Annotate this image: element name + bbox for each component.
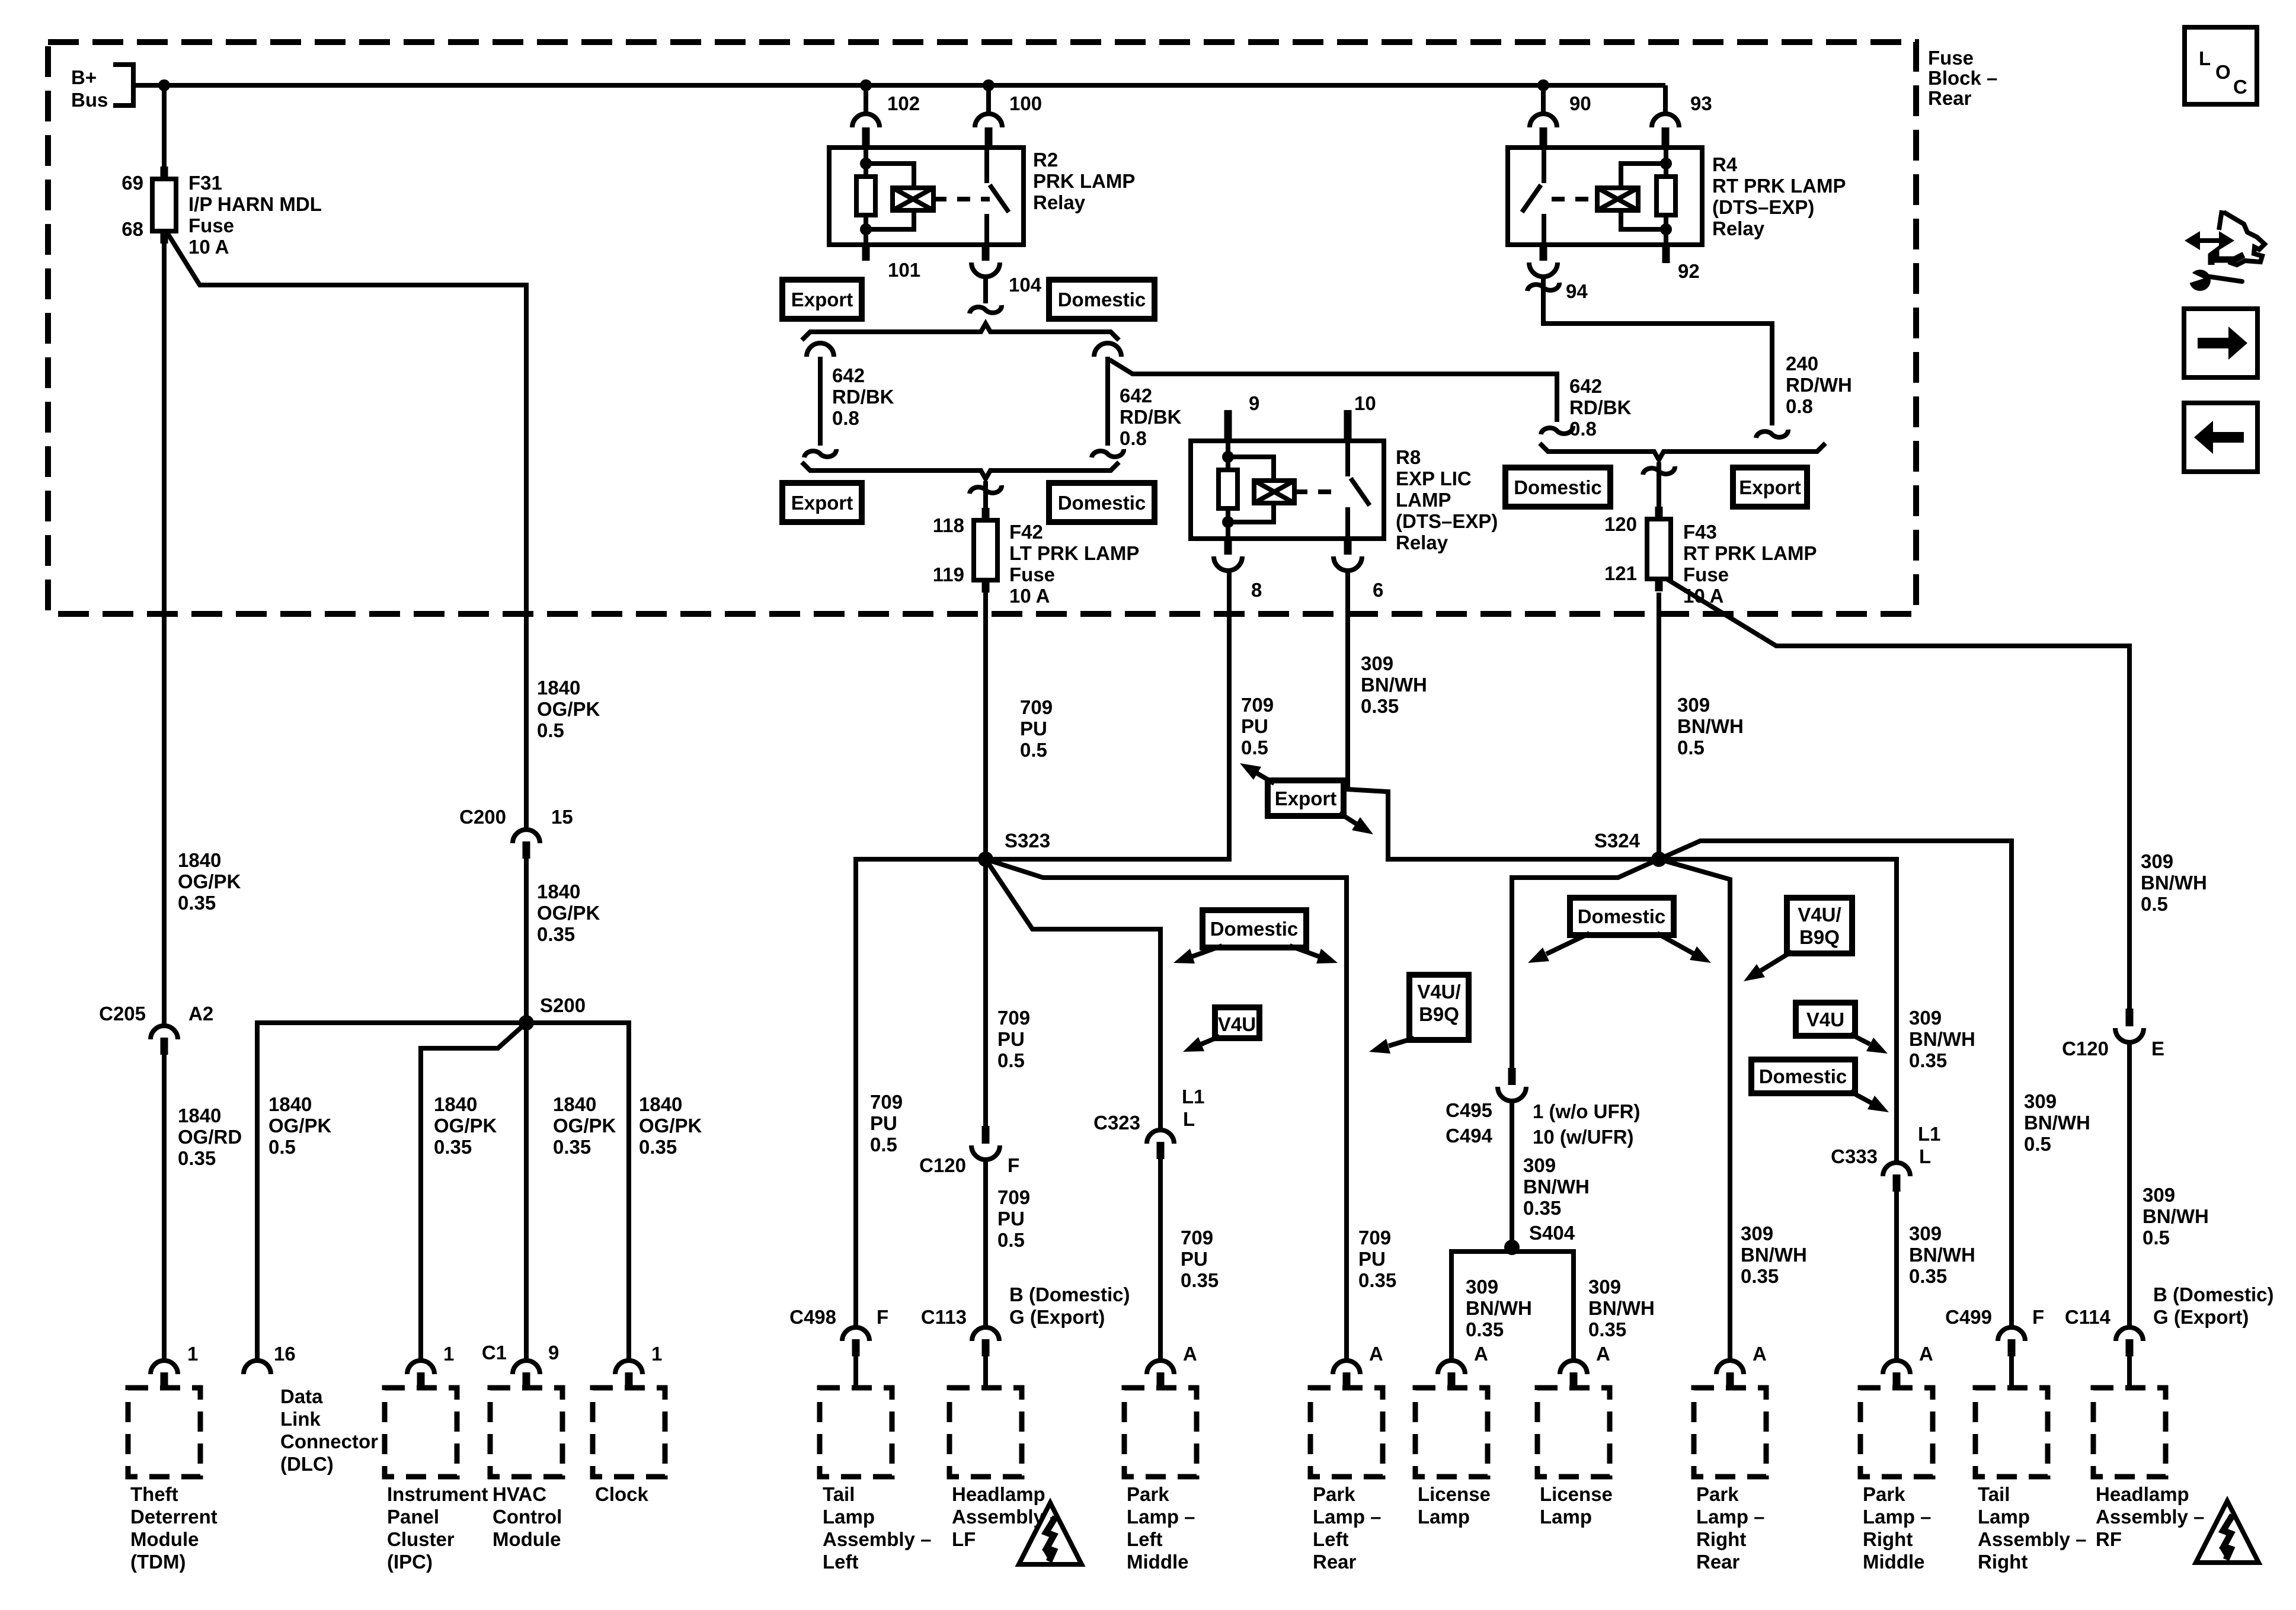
svg-text:A: A	[1474, 1343, 1488, 1365]
svg-text:BN/WH: BN/WH	[2024, 1112, 2090, 1134]
svg-text:L1: L1	[1182, 1086, 1205, 1108]
svg-text:709: 709	[997, 1186, 1030, 1208]
svg-text:8: 8	[1251, 579, 1262, 601]
node bus-pin100 junction	[983, 79, 994, 91]
svg-text:B9Q: B9Q	[1799, 926, 1840, 948]
svg-text:709: 709	[997, 1007, 1030, 1029]
svg-text:0.5: 0.5	[537, 719, 564, 741]
svg-text:1840: 1840	[268, 1093, 312, 1115]
svg-text:LAMP: LAMP	[1396, 489, 1451, 511]
wire C114 to headlamp RF box	[2127, 1356, 2132, 1389]
svg-text:709: 709	[1358, 1227, 1391, 1249]
park lamp left rear box	[1310, 1388, 1383, 1477]
resistor R8 internal	[1219, 470, 1237, 508]
options brace above fuse F43	[1540, 443, 1825, 460]
R4 switch bottom contact	[1542, 214, 1546, 245]
R8 internal coil-side vertical	[1226, 441, 1230, 470]
svg-text:Relay: Relay	[1033, 191, 1086, 213]
svg-text:94: 94	[1566, 280, 1588, 302]
svg-text:A: A	[1183, 1343, 1197, 1365]
svg-text:Domestic: Domestic	[1514, 476, 1602, 498]
splice S324	[1651, 852, 1667, 867]
svg-text:RF: RF	[2096, 1528, 2122, 1550]
svg-text:A: A	[1919, 1343, 1933, 1365]
svg-text:LF: LF	[952, 1528, 976, 1550]
svg-text:9: 9	[1249, 392, 1259, 414]
svg-text:PRK LAMP: PRK LAMP	[1033, 170, 1135, 192]
wire merge to F42	[983, 481, 988, 508]
svg-text:0.35: 0.35	[537, 923, 575, 945]
R8 pin 9 stub	[1224, 410, 1232, 441]
svg-text:C333: C333	[1831, 1145, 1878, 1167]
coil R2 branch leads	[866, 164, 914, 188]
svg-text:EXP LIC: EXP LIC	[1396, 468, 1472, 489]
B+ bus bracket	[113, 65, 133, 105]
svg-text:OG/PK: OG/PK	[434, 1115, 497, 1137]
svg-text:0.35: 0.35	[178, 1147, 216, 1169]
svg-text:0.5: 0.5	[2142, 1227, 2170, 1249]
svg-text:10: 10	[1354, 392, 1376, 414]
svg-text:Fuse: Fuse	[1009, 564, 1055, 585]
clock pin 1 connector	[615, 1361, 642, 1374]
svg-text:(DTS–EXP): (DTS–EXP)	[1712, 196, 1814, 218]
svg-text:OG/RD: OG/RD	[178, 1126, 242, 1148]
wire S324 to tail lamp right	[1659, 841, 2012, 1327]
warning triangle right	[2196, 1501, 2259, 1563]
wire end marker 642 right	[1541, 426, 1573, 434]
svg-text:Middle: Middle	[1127, 1551, 1189, 1573]
svg-text:(TDM): (TDM)	[130, 1551, 186, 1573]
left arrow box	[2184, 403, 2257, 472]
R4 pin 90 connector	[1530, 114, 1557, 127]
svg-text:709: 709	[870, 1091, 903, 1113]
svg-text:90: 90	[1569, 92, 1591, 114]
svg-text:B9Q: B9Q	[1419, 1003, 1459, 1025]
Domestic callout right	[1570, 898, 1674, 935]
R2 switch bottom contact	[984, 214, 989, 245]
R8 pin 8 connector	[1224, 539, 1232, 555]
node bus-pin90 junction	[1537, 79, 1549, 91]
svg-text:Left: Left	[823, 1551, 859, 1573]
svg-text:S200: S200	[540, 994, 586, 1016]
node bus-pin102 junction	[860, 79, 872, 91]
svg-text:Domestic: Domestic	[1058, 492, 1146, 514]
svg-text:Export: Export	[791, 289, 853, 311]
svg-text:Park: Park	[1127, 1483, 1169, 1505]
svg-text:Lamp: Lamp	[1418, 1506, 1470, 1528]
svg-text:Lamp –: Lamp –	[1696, 1506, 1765, 1528]
svg-text:License: License	[1540, 1483, 1613, 1505]
svg-text:10 (w/UFR): 10 (w/UFR)	[1533, 1126, 1634, 1148]
svg-text:642: 642	[1569, 375, 1602, 397]
svg-text:Theft: Theft	[130, 1483, 178, 1505]
svg-text:69: 69	[121, 172, 143, 194]
wire F43 to splice S324	[1657, 593, 1661, 859]
svg-text:240: 240	[1786, 353, 1818, 375]
svg-text:121: 121	[1604, 562, 1637, 584]
svg-text:C114: C114	[2065, 1306, 2111, 1328]
wire C120E to C114	[2127, 1042, 2132, 1327]
svg-text:0.35: 0.35	[1909, 1049, 1947, 1071]
R2 switch fixed contact	[984, 148, 989, 183]
svg-text:Control: Control	[493, 1506, 562, 1528]
license lamp 1 pin A connector	[1438, 1361, 1465, 1374]
Domestic callout left	[1203, 910, 1306, 948]
wire pin 94 to F43 export side	[1543, 276, 1772, 425]
connector C114	[2116, 1327, 2143, 1341]
fuse block - rear dashed border	[48, 42, 1916, 614]
svg-text:BN/WH: BN/WH	[1677, 715, 1744, 737]
svg-text:0.5: 0.5	[1677, 737, 1705, 758]
R8 switch fixed contact	[1345, 441, 1350, 476]
svg-text:0.8: 0.8	[832, 407, 859, 429]
node R2 coil bottom junction	[860, 223, 872, 235]
connector 642 domestic top	[1094, 343, 1121, 357]
svg-text:Clock: Clock	[595, 1483, 649, 1505]
Export box lower	[782, 483, 862, 522]
headlamp assembly RF box	[2093, 1388, 2166, 1477]
svg-text:Fuse: Fuse	[188, 215, 234, 236]
connector 642 export top	[807, 343, 834, 357]
park lamp right middle pin A connector	[1883, 1361, 1910, 1374]
svg-text:Tail: Tail	[1978, 1483, 2010, 1505]
R4 pin 92 stub	[1662, 245, 1670, 263]
svg-text:BN/WH: BN/WH	[1909, 1028, 1975, 1050]
svg-text:(IPC): (IPC)	[387, 1551, 433, 1573]
V4U callout far right	[1796, 1003, 1855, 1036]
svg-text:Lamp: Lamp	[1540, 1506, 1592, 1528]
R8 pin 6 connector	[1344, 539, 1352, 555]
svg-text:1840: 1840	[178, 1105, 221, 1126]
wire S323 to park lamp left middle	[986, 859, 1160, 1130]
svg-text:F42: F42	[1009, 521, 1043, 543]
svg-text:0.5: 0.5	[2024, 1133, 2051, 1155]
splice S200	[519, 1015, 534, 1030]
svg-text:1 (w/o UFR): 1 (w/o UFR)	[1533, 1100, 1640, 1122]
svg-text:Export: Export	[791, 492, 853, 514]
svg-text:0.35: 0.35	[178, 892, 216, 914]
R2 internal coil-side vertical	[864, 149, 868, 177]
R4 coil to switch dashed link	[1552, 197, 1597, 201]
node bus-F31 junction	[158, 79, 170, 91]
svg-text:BN/WH: BN/WH	[1588, 1297, 1655, 1319]
svg-text:309: 309	[2142, 1184, 2175, 1206]
wire bus to F31	[162, 85, 167, 167]
svg-text:V4U: V4U	[1806, 1009, 1844, 1030]
svg-text:C1: C1	[482, 1342, 507, 1363]
svg-text:0.35: 0.35	[1588, 1318, 1626, 1340]
svg-text:0.5: 0.5	[268, 1136, 296, 1158]
R2 pin 100 connector	[975, 114, 1002, 127]
V4U callout left	[1215, 1007, 1259, 1038]
wire C333 to park lamp right middle pin A	[1894, 1192, 1899, 1362]
svg-text:Right: Right	[1978, 1551, 2028, 1573]
svg-text:BN/WH: BN/WH	[1466, 1297, 1532, 1319]
HVAC control module box	[490, 1388, 562, 1477]
svg-text:0.35: 0.35	[639, 1136, 677, 1158]
wire S324 to park lamp right rear	[1659, 859, 1730, 1362]
svg-text:G (Export): G (Export)	[2153, 1306, 2249, 1328]
svg-text:10 A: 10 A	[1009, 585, 1050, 607]
svg-text:F: F	[2032, 1306, 2044, 1328]
LOC reference box	[2185, 27, 2257, 104]
coil R4 winding symbol	[1597, 188, 1638, 210]
svg-text:L1: L1	[1918, 1123, 1941, 1145]
svg-text:BN/WH: BN/WH	[2141, 872, 2207, 894]
svg-text:Domestic: Domestic	[1210, 918, 1299, 940]
svg-text:Lamp –: Lamp –	[1313, 1506, 1382, 1528]
svg-text:Headlamp: Headlamp	[952, 1483, 1045, 1505]
wire S200 to Clock	[526, 1023, 629, 1362]
svg-text:Domestic: Domestic	[1578, 905, 1666, 927]
connector C200	[513, 830, 540, 843]
svg-text:Relay: Relay	[1396, 532, 1448, 553]
options merge marker above F43	[1643, 466, 1675, 475]
wire bus to R2 pin 102	[864, 85, 868, 114]
R2 internal resistor bottom lead	[864, 215, 868, 245]
svg-text:0.35: 0.35	[1181, 1269, 1219, 1291]
svg-text:V4U/: V4U/	[1798, 904, 1841, 926]
R8 pin 10 stub	[1344, 410, 1352, 441]
svg-text:C205: C205	[99, 1003, 146, 1025]
svg-text:LT PRK LAMP: LT PRK LAMP	[1009, 542, 1139, 564]
svg-text:309: 309	[1677, 694, 1710, 716]
wire 642 RD/BK export	[818, 357, 823, 446]
wire bus corner to R4 pin 93	[1663, 85, 1668, 114]
svg-text:0.35: 0.35	[434, 1136, 472, 1158]
wire F31 to C200 branch	[167, 232, 526, 828]
svg-text:Domestic: Domestic	[1759, 1065, 1847, 1087]
svg-text:Fuse: Fuse	[1683, 564, 1729, 585]
svg-text:F43: F43	[1683, 521, 1717, 543]
svg-text:B+: B+	[71, 66, 97, 88]
wire S200 to HVAC	[524, 1023, 529, 1362]
wire S323 to R8 pin 8	[986, 571, 1229, 859]
wire S200 to IPC	[421, 1023, 526, 1362]
R8 switch blade	[1351, 478, 1370, 505]
coil R4 branch leads	[1621, 164, 1666, 188]
wire C499 to tail lamp right box	[2009, 1356, 2014, 1389]
svg-text:309: 309	[1741, 1222, 1773, 1244]
connector C120 F	[982, 1126, 990, 1144]
HVAC control module pin 9 connector	[513, 1361, 540, 1374]
svg-text:Assembly –: Assembly –	[2096, 1506, 2204, 1528]
svg-text:Export: Export	[1275, 788, 1337, 809]
pin 94 options marker	[1527, 283, 1559, 291]
svg-text:C113: C113	[921, 1306, 967, 1328]
svg-text:1840: 1840	[553, 1093, 596, 1115]
license lamp 2 pin A connector	[1560, 1361, 1587, 1374]
node R8 coil top junction	[1222, 451, 1234, 463]
svg-text:642: 642	[832, 364, 865, 386]
R8 switch bottom contact	[1345, 507, 1350, 539]
svg-text:709: 709	[1020, 696, 1053, 718]
connector C113	[972, 1327, 999, 1341]
R4 pin 93 connector	[1652, 114, 1679, 127]
svg-text:Fuse: Fuse	[1928, 47, 1974, 69]
wire S323 to C120 F	[983, 859, 988, 1127]
svg-text:RD/BK: RD/BK	[832, 386, 894, 408]
wire S324 to park lamp right middle	[1659, 859, 1897, 1163]
svg-text:(DTS–EXP): (DTS–EXP)	[1396, 510, 1498, 532]
svg-text:309: 309	[1466, 1276, 1498, 1298]
svg-text:Connector: Connector	[280, 1430, 378, 1452]
svg-text:309: 309	[1523, 1154, 1556, 1176]
svg-text:0.35: 0.35	[1523, 1197, 1561, 1219]
svg-text:0.5: 0.5	[870, 1134, 897, 1156]
svg-text:C495: C495	[1446, 1099, 1492, 1121]
right arrow box	[2184, 309, 2257, 377]
svg-text:1: 1	[651, 1343, 662, 1365]
svg-text:V4U/: V4U/	[1417, 981, 1460, 1003]
svg-text:0.35: 0.35	[1361, 695, 1399, 717]
park lamp left middle pin A connector	[1147, 1361, 1174, 1374]
wire R8 pin 6 to S324	[1348, 571, 1659, 859]
svg-text:BN/WH: BN/WH	[1361, 674, 1427, 696]
svg-text:R2: R2	[1033, 149, 1058, 171]
svg-text:Lamp –: Lamp –	[1863, 1506, 1932, 1528]
wire F42 to splice S323	[983, 593, 988, 859]
V4U/B9Q callout left	[1409, 975, 1469, 1040]
svg-text:101: 101	[888, 259, 920, 281]
svg-text:Module: Module	[493, 1528, 561, 1550]
svg-text:PU: PU	[870, 1112, 897, 1134]
svg-text:0.35: 0.35	[1358, 1269, 1396, 1291]
svg-text:68: 68	[121, 218, 143, 240]
svg-text:C494: C494	[1446, 1125, 1493, 1147]
node R4 coil top junction	[1660, 158, 1672, 169]
tail lamp assembly left box	[820, 1388, 892, 1477]
R2 coil to switch dashed link	[933, 197, 990, 201]
svg-text:(DLC): (DLC)	[280, 1453, 334, 1475]
node R4 coil bottom junction	[1660, 223, 1672, 235]
svg-text:10 A: 10 A	[188, 236, 229, 258]
svg-text:A: A	[1753, 1343, 1767, 1365]
svg-text:O: O	[2215, 61, 2231, 83]
wire C205 to TDM	[162, 1055, 167, 1362]
svg-text:OG/PK: OG/PK	[268, 1115, 332, 1137]
svg-text:S324: S324	[1594, 830, 1641, 852]
R2 switch blade	[990, 185, 1009, 212]
park lamp right rear box	[1694, 1388, 1766, 1477]
svg-text:RD/BK: RD/BK	[1120, 406, 1182, 428]
Domestic box upper	[1049, 280, 1155, 319]
B+ bus wire	[133, 83, 1665, 88]
Export callout with arrows	[1268, 780, 1344, 816]
svg-text:0.5: 0.5	[1241, 737, 1268, 758]
svg-text:Tail: Tail	[823, 1483, 855, 1505]
park lamp left rear pin A connector	[1333, 1361, 1360, 1374]
svg-text:Panel: Panel	[387, 1506, 439, 1528]
svg-text:BN/WH: BN/WH	[1523, 1176, 1590, 1198]
svg-text:Park: Park	[1696, 1483, 1739, 1505]
svg-text:Right: Right	[1696, 1528, 1746, 1550]
park lamp left middle box	[1124, 1388, 1197, 1477]
svg-text:PU: PU	[997, 1208, 1025, 1230]
warning triangle left	[1019, 1503, 1082, 1564]
svg-text:E: E	[2151, 1038, 2164, 1060]
svg-text:BN/WH: BN/WH	[1741, 1244, 1807, 1266]
svg-text:104: 104	[1009, 274, 1042, 296]
svg-text:Lamp: Lamp	[823, 1506, 875, 1528]
svg-text:1: 1	[443, 1343, 454, 1365]
fuse F43 RT PRK LAMP 10A	[1655, 507, 1663, 521]
options merge marker above F42	[970, 485, 1002, 494]
svg-text:RT PRK LAMP: RT PRK LAMP	[1683, 542, 1817, 564]
svg-text:RD/BK: RD/BK	[1569, 396, 1632, 418]
license lamp 2 box	[1537, 1388, 1610, 1477]
wire C323 to park lamp left middle pin A	[1158, 1159, 1163, 1362]
svg-text:PU: PU	[1020, 718, 1047, 740]
svg-text:Left: Left	[1127, 1528, 1163, 1550]
svg-text:PU: PU	[997, 1028, 1025, 1050]
R4 switch blade	[1522, 185, 1541, 212]
Domestic box right	[1505, 468, 1610, 507]
svg-text:PU: PU	[1241, 715, 1268, 737]
svg-text:Bus: Bus	[71, 89, 108, 111]
svg-text:OG/PK: OG/PK	[537, 698, 600, 720]
svg-text:B (Domestic): B (Domestic)	[1009, 1283, 1130, 1305]
svg-text:Data: Data	[280, 1385, 323, 1407]
Domestic callout far right	[1751, 1060, 1855, 1093]
svg-text:G (Export): G (Export)	[1009, 1306, 1105, 1328]
svg-text:PU: PU	[1358, 1248, 1386, 1270]
svg-text:16: 16	[274, 1343, 296, 1365]
svg-text:BN/WH: BN/WH	[2142, 1205, 2209, 1227]
fuse F42 LT PRK LAMP 10A	[982, 508, 990, 523]
svg-text:F: F	[877, 1306, 888, 1328]
hand-wrench icon with double arrow	[2194, 238, 2225, 243]
svg-text:92: 92	[1678, 260, 1700, 282]
theft deterrent module pin 1 connector	[151, 1361, 178, 1374]
relay R8 box	[1191, 441, 1384, 539]
svg-text:1840: 1840	[537, 677, 580, 699]
wire S323 to tail lamp left	[856, 859, 986, 1327]
svg-text:309: 309	[2024, 1090, 2057, 1112]
wire C200 to S200	[524, 859, 529, 1023]
svg-text:L: L	[2199, 47, 2211, 69]
splice S323	[978, 852, 993, 867]
options brace above fuse F42	[802, 462, 1119, 479]
R2 pin 101 stub	[862, 245, 870, 261]
svg-text:642: 642	[1120, 385, 1152, 406]
options brace below pin 104	[802, 324, 1119, 340]
coil R2 winding symbol	[893, 188, 933, 210]
svg-text:S404: S404	[1529, 1222, 1575, 1244]
svg-text:309: 309	[1909, 1007, 1942, 1029]
svg-text:15: 15	[551, 806, 573, 828]
theft deterrent module box	[128, 1388, 200, 1477]
svg-text:F: F	[1008, 1154, 1019, 1176]
svg-text:Park: Park	[1863, 1483, 1905, 1505]
svg-text:Middle: Middle	[1863, 1551, 1925, 1573]
svg-text:C498: C498	[789, 1306, 836, 1328]
options split marker below pin 104	[970, 305, 1002, 313]
svg-text:Domestic: Domestic	[1058, 289, 1146, 311]
R8 coil to switch dashed link	[1294, 489, 1342, 494]
svg-text:Rear: Rear	[1313, 1551, 1357, 1573]
svg-text:A: A	[1369, 1343, 1383, 1365]
R4 internal resistor-side vertical	[1664, 149, 1668, 177]
svg-text:Rear: Rear	[1928, 87, 1972, 109]
V4U/B9Q callout right	[1787, 898, 1852, 953]
svg-text:Park: Park	[1313, 1483, 1355, 1505]
svg-text:Relay: Relay	[1712, 217, 1765, 239]
svg-text:Module: Module	[130, 1528, 199, 1550]
svg-text:0.8: 0.8	[1786, 395, 1813, 417]
R2 pin 102 connector	[852, 114, 880, 127]
svg-text:OG/PK: OG/PK	[537, 902, 600, 924]
